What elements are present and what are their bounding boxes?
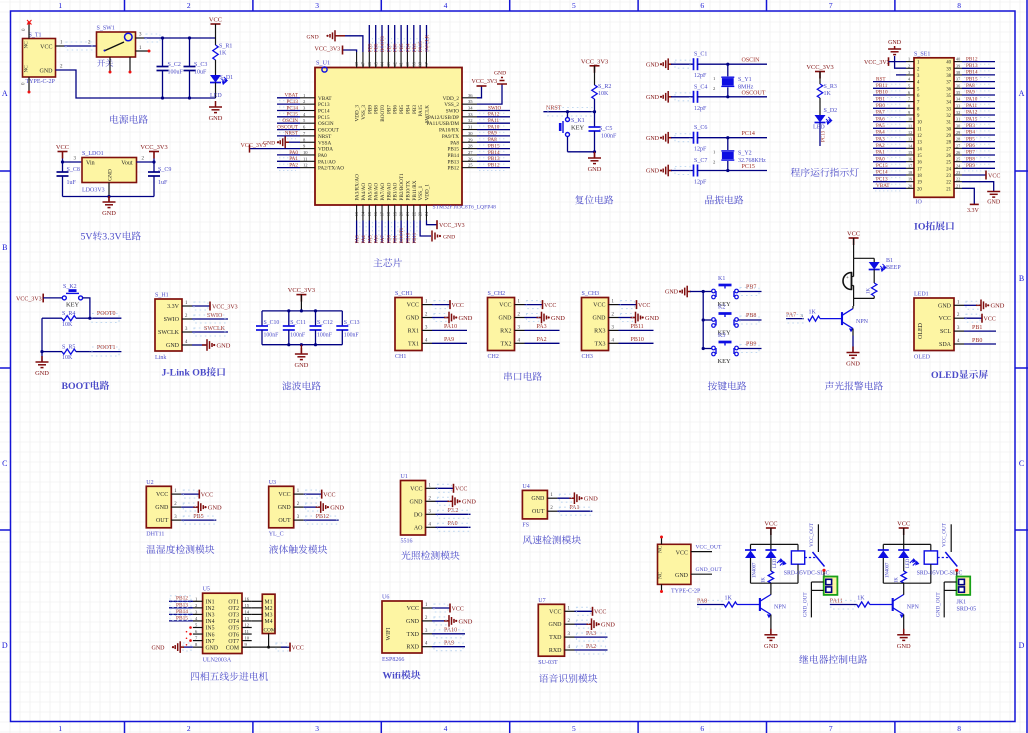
wire alarm emitter to gnd (852, 336, 854, 353)
svg-text:PB12: PB12 (966, 56, 978, 62)
svg-text:NC: NC (658, 571, 664, 579)
svg-text:IN2: IN2 (206, 606, 215, 612)
svg-text:OT7: OT7 (228, 639, 239, 645)
push button K3 KEY (703, 348, 711, 350)
VCC flag (stepper) (281, 646, 290, 648)
LED D1 (210, 75, 221, 83)
svg-text:2: 2 (185, 314, 188, 319)
alarm bottom tee (854, 297, 875, 299)
svg-text:K3: K3 (718, 333, 725, 339)
svg-text:GND: GND (108, 169, 114, 181)
svg-text:PB9: PB9 (367, 105, 373, 114)
svg-text:VDDA: VDDA (318, 147, 333, 153)
svg-text:4: 4 (957, 339, 960, 344)
connector JK output (green) (824, 577, 838, 595)
svg-text:PB10: PB10 (406, 232, 411, 243)
svg-text:10: 10 (303, 150, 308, 155)
svg-text:U5: U5 (203, 587, 210, 593)
ground GND (LDO) (103, 196, 116, 208)
svg-text:OSCIN: OSCIN (318, 121, 334, 127)
svg-text:2: 2 (142, 157, 145, 162)
svg-text:20: 20 (917, 187, 922, 192)
push button K2 KEY (BOOT) (62, 291, 82, 300)
svg-text:PA0: PA0 (318, 153, 327, 159)
ground GND (C6 row1) (660, 137, 662, 139)
svg-text:PB15: PB15 (488, 143, 500, 149)
ground GND (C4 row2) (660, 96, 662, 98)
svg-text:16: 16 (917, 161, 922, 166)
wire VCC_3V3 to key K2 (43, 297, 62, 299)
svg-text:GND: GND (459, 618, 473, 625)
svg-text:GND: GND (549, 622, 563, 628)
svg-text:BOOT0: BOOT0 (380, 105, 386, 122)
U1 top pin net wires 46-37 (368, 25, 370, 52)
svg-text:PA3: PA3 (876, 136, 885, 142)
svg-text:12: 12 (245, 623, 250, 628)
svg-text:12: 12 (908, 130, 912, 135)
svg-text:S_C3: S_C3 (194, 62, 207, 68)
svg-text:PA2/TX/AO: PA2/TX/AO (318, 166, 344, 172)
svg-text:KEY: KEY (718, 358, 732, 365)
svg-text:7: 7 (195, 636, 198, 641)
svg-text:PB5: PB5 (193, 514, 203, 520)
svg-text:11: 11 (303, 156, 308, 161)
capacitor C7 12pF (671, 170, 694, 172)
svg-text:GND: GND (410, 499, 424, 505)
svg-text:38: 38 (946, 74, 951, 79)
svg-text:2: 2 (174, 502, 177, 507)
SE1 pin3 short stub (896, 74, 906, 76)
svg-text:VCC_OUT: VCC_OUT (809, 522, 815, 547)
wire CH3 pin4 PB10 (619, 342, 654, 344)
svg-text:IO: IO (914, 222, 926, 233)
svg-text:32: 32 (468, 118, 473, 123)
svg-text:VSS_3: VSS_3 (361, 105, 367, 120)
svg-text:12: 12 (303, 163, 308, 168)
svg-text:S_C12: S_C12 (317, 320, 333, 326)
svg-text:J-Link OB: J-Link OB (162, 368, 207, 379)
svg-text:Vout: Vout (121, 161, 133, 167)
svg-text:VCC: VCC (455, 487, 467, 493)
svg-text:ULN2003A: ULN2003A (203, 658, 232, 664)
svg-text:VCC: VCC (156, 492, 168, 498)
connector M1 stepper motor body (262, 594, 275, 633)
wire OLED pin3 SCL to PB1 (964, 330, 996, 332)
module U2 DHT11 body (146, 486, 171, 528)
title: 5V to 3.3V 5V转3.3V电路 (81, 231, 141, 242)
LDO ground wire (108, 183, 110, 197)
svg-text:VCC_3V3: VCC_3V3 (581, 58, 608, 65)
ground GND (BOOT) (36, 356, 49, 368)
T2 GND pin to GND_OUT (691, 573, 712, 575)
wire CH1 pin2 to GND (432, 317, 448, 319)
svg-text:PA5/AO: PA5/AO (367, 183, 373, 201)
wire K2 to BOOT0 node (83, 298, 90, 318)
svg-text:5516: 5516 (401, 539, 413, 545)
svg-text:15: 15 (917, 154, 922, 159)
svg-text:12pF: 12pF (694, 73, 707, 79)
svg-text:10K: 10K (598, 91, 609, 97)
capacitor C9 1uF (153, 159, 155, 173)
svg-text:OLED: OLED (931, 370, 959, 381)
title: J-Link OB接口 (162, 367, 226, 378)
svg-text:PB8: PB8 (374, 105, 380, 114)
svg-text:PA10: PA10 (444, 324, 457, 330)
wire CH2 pin2 to GND (525, 317, 541, 319)
wire K3 to PB9 (739, 348, 762, 350)
U1 right net labels (477, 110, 510, 112)
svg-text:SWIO: SWIO (446, 109, 460, 115)
svg-text:VCC: VCC (593, 303, 605, 309)
svg-text:100uF: 100uF (168, 70, 184, 76)
U5 pin 4 IN4 (193, 620, 203, 622)
module U1 5516 body (401, 481, 426, 536)
wire BOOT pulldown bus (41, 318, 43, 362)
svg-text:GND: GND (217, 342, 231, 349)
module U4 pin OUT to PA1 (557, 510, 592, 512)
svg-text:PB10/TX: PB10/TX (405, 180, 411, 200)
module U1 pin VCC to VCC (436, 487, 454, 489)
wire K1 to PB7 (739, 291, 762, 293)
svg-text:19: 19 (917, 181, 922, 186)
svg-text:32: 32 (956, 110, 960, 115)
svg-text:S_C5: S_C5 (599, 126, 612, 132)
U5 pin 16 OT1 (242, 600, 252, 602)
svg-text:GND: GND (462, 499, 476, 506)
svg-text:GND_OUT: GND_OUT (935, 592, 941, 617)
SE1 right net wires and labels (962, 61, 995, 63)
svg-text:GND: GND (584, 496, 598, 503)
svg-text:2: 2 (612, 313, 615, 318)
svg-text:100nF: 100nF (344, 333, 360, 339)
svg-text:VBAT: VBAT (284, 93, 298, 99)
svg-text:GND: GND (764, 643, 778, 650)
svg-text:PB11: PB11 (413, 232, 418, 243)
module U1 pin GND to GND (436, 500, 452, 502)
svg-text:CH2: CH2 (488, 354, 499, 360)
svg-text:GND: GND (35, 370, 49, 377)
svg-text:GND: GND (646, 62, 660, 68)
svg-text:VCC: VCC (407, 303, 419, 309)
LED D3 (alarm) (869, 262, 880, 270)
svg-text:IO: IO (916, 200, 923, 206)
header CH2 serial port body (488, 298, 515, 351)
svg-text:VCC: VCC (292, 645, 304, 651)
svg-text:PB5: PB5 (966, 136, 975, 142)
T1 top pin 0 stub with x mark (28, 24, 30, 39)
svg-text:VCC_3V3: VCC_3V3 (806, 64, 833, 71)
svg-text:GND: GND (499, 316, 513, 322)
svg-text:STM32F103C8T6_LQFP48: STM32F103C8T6_LQFP48 (433, 205, 497, 211)
svg-text:10: 10 (917, 121, 922, 126)
resistor R1 1K (215, 38, 217, 45)
svg-text:7: 7 (303, 131, 306, 136)
module U3 pin OUT to PB12 (304, 519, 339, 521)
svg-text:PB7: PB7 (386, 105, 392, 114)
svg-text:11: 11 (917, 127, 922, 132)
svg-text:S_C13: S_C13 (344, 320, 360, 326)
svg-text:6: 6 (303, 125, 306, 130)
svg-text:VCC: VCC (278, 492, 290, 498)
svg-text:34: 34 (468, 106, 473, 111)
svg-text:5V: 5V (81, 232, 93, 243)
svg-text:COM: COM (226, 645, 239, 651)
svg-text:PA9: PA9 (966, 90, 975, 96)
svg-text:VCC: VCC (549, 609, 561, 615)
U5 pin 9 COM (242, 646, 252, 648)
svg-text:2: 2 (195, 603, 198, 608)
U5 pin 15 OT2 (242, 607, 252, 609)
module U3 pin VCC to VCC (304, 493, 322, 495)
svg-text:PB5: PB5 (399, 105, 405, 114)
svg-text:VCC_3V3: VCC_3V3 (212, 304, 238, 310)
M1 pin M3 wire (252, 613, 263, 615)
svg-text:4: 4 (444, 1, 448, 10)
svg-text:NPN: NPN (774, 605, 787, 611)
svg-text:2: 2 (303, 99, 306, 104)
svg-text:19: 19 (908, 177, 912, 182)
svg-text:PA12: PA12 (488, 112, 500, 118)
svg-text:GND: GND (846, 361, 860, 368)
svg-text:IN5: IN5 (206, 626, 215, 632)
svg-text:S_Y2: S_Y2 (738, 151, 752, 157)
svg-text:PB8: PB8 (966, 156, 975, 162)
svg-text:PA1/AO: PA1/AO (318, 159, 336, 165)
svg-text:GND: GND (278, 505, 292, 511)
svg-text:VCC: VCC (452, 606, 464, 612)
svg-text:GND: GND (551, 315, 565, 322)
title: OLED显示屏 (931, 370, 988, 381)
svg-text:35: 35 (468, 99, 473, 104)
svg-text:PA8: PA8 (488, 137, 497, 143)
svg-text:PA11: PA11 (966, 103, 978, 109)
svg-text:40: 40 (946, 61, 951, 66)
svg-text:PA0: PA0 (289, 150, 298, 156)
svg-text:GND_OUT: GND_OUT (696, 567, 723, 573)
svg-text:0: 0 (22, 28, 27, 31)
svg-text:TXD: TXD (549, 635, 562, 641)
svg-text:VDD_3: VDD_3 (355, 105, 361, 122)
svg-text:31: 31 (956, 117, 960, 122)
svg-text:PC13: PC13 (876, 176, 888, 182)
ground GND (filter) (295, 348, 308, 360)
svg-text:RX3: RX3 (594, 328, 605, 334)
svg-text:10: 10 (908, 117, 912, 122)
svg-text:29: 29 (946, 134, 951, 139)
wire GND bus of power circuit (56, 70, 216, 98)
svg-text:34: 34 (956, 97, 961, 102)
U1 bottom pins 13-24 stubs (357, 205, 427, 221)
wire H1 pin4 to GND (192, 344, 206, 346)
svg-text:GND: GND (166, 343, 180, 349)
SW1 pin3 to VCC rail (136, 37, 145, 39)
svg-text:PA10: PA10 (488, 124, 500, 130)
svg-text:PB11/RX: PB11/RX (412, 180, 418, 200)
capacitor C3 10uF (189, 38, 191, 67)
svg-text:41: 41 (399, 62, 404, 66)
svg-text:GND: GND (406, 316, 420, 322)
U6 pin VCC to VCC (432, 607, 450, 609)
svg-text:SRD-05VDC-SL-C: SRD-05VDC-SL-C (917, 571, 963, 577)
svg-text:IN1: IN1 (206, 600, 215, 606)
U7 pin TXD to PA3 (575, 636, 608, 638)
title: crystal 晶振电路 (705, 195, 743, 204)
svg-text:B: B (1019, 274, 1024, 283)
svg-text:U6: U6 (382, 595, 389, 601)
svg-text:1uF: 1uF (158, 180, 168, 186)
svg-text:9: 9 (245, 642, 248, 647)
svg-text:PA0: PA0 (876, 156, 885, 162)
ground GND (alarm) (847, 347, 860, 359)
svg-text:PC13: PC13 (318, 102, 330, 108)
driver U5 ULN2003A body (203, 593, 242, 653)
U1 left net labels (277, 97, 300, 99)
module U1 pin AO to PA0 (436, 526, 471, 528)
svg-text:PB3: PB3 (412, 105, 418, 114)
net label PA8 and base resistor 1K (697, 604, 724, 606)
svg-text:2: 2 (908, 63, 910, 68)
transistor NPN (relay driver) (893, 595, 904, 615)
svg-text:S_K2: S_K2 (63, 284, 77, 290)
ground GND (relay driver) (764, 629, 777, 641)
svg-text:4: 4 (425, 338, 428, 343)
svg-text:S_LDO1: S_LDO1 (82, 151, 104, 157)
svg-text:GND: GND (665, 290, 679, 296)
svg-text:GND: GND (588, 166, 602, 173)
title: Wifi模块 (383, 670, 421, 681)
svg-text:24: 24 (946, 167, 951, 172)
svg-text:PB11: PB11 (631, 324, 644, 330)
svg-text:1K: 1K (866, 288, 872, 295)
wire K2 to PB8 (739, 319, 762, 321)
header SE1 IO expansion 40-pin body (914, 58, 954, 198)
svg-text:OSCIN: OSCIN (742, 58, 761, 64)
svg-text:28: 28 (468, 144, 473, 149)
svg-text:27: 27 (468, 150, 473, 155)
svg-text:9: 9 (908, 110, 910, 115)
M1 pin M4 wire (252, 620, 263, 622)
U5 pin 8 GND (193, 646, 203, 648)
svg-text:S_CH3: S_CH3 (582, 291, 600, 297)
M1 pin M1 wire (252, 600, 263, 602)
SW1 pin1 open stub (136, 50, 149, 52)
svg-text:VCC_3V3: VCC_3V3 (439, 223, 465, 229)
svg-text:1: 1 (297, 489, 300, 494)
svg-text:VCC_OUT: VCC_OUT (696, 545, 722, 551)
module U4 pin GND to GND (557, 497, 573, 499)
U7 pin RXD to PA2 (575, 649, 608, 651)
svg-text:1K: 1K (762, 577, 767, 583)
svg-text:GND: GND (646, 169, 660, 175)
transistor NPN (relay driver) (760, 595, 771, 615)
wire CH1 pin4 PA9 (432, 342, 467, 344)
svg-text:17: 17 (917, 167, 922, 172)
svg-text:3.3V: 3.3V (967, 208, 980, 214)
module U2 pin VCC to VCC (181, 493, 199, 495)
svg-text:S_D2: S_D2 (824, 108, 838, 114)
svg-text:30: 30 (956, 123, 960, 128)
svg-text:42: 42 (392, 62, 397, 66)
svg-text:IN4: IN4 (206, 619, 215, 625)
svg-text:GND: GND (209, 115, 223, 122)
svg-text:39: 39 (946, 67, 951, 72)
svg-text:PB13: PB13 (447, 159, 459, 165)
svg-text:VSS_2: VSS_2 (444, 102, 459, 108)
svg-text:PB1/AO: PB1/AO (393, 182, 399, 200)
title: indicator 程序运行指示灯 (791, 168, 859, 177)
svg-text:3: 3 (185, 327, 188, 332)
svg-text:22: 22 (411, 212, 416, 216)
wire VSS_2 to GND flag (477, 84, 502, 104)
ground GND (C7 row2) (660, 169, 662, 171)
svg-text:PB12: PB12 (488, 162, 500, 168)
svg-text:35: 35 (956, 90, 960, 95)
svg-text:33: 33 (468, 112, 473, 117)
svg-text:PA9: PA9 (444, 337, 454, 343)
svg-text:S_R1: S_R1 (219, 44, 232, 50)
svg-text:LDO3V3: LDO3V3 (82, 188, 105, 194)
wire VCC rail top (144, 37, 216, 39)
svg-text:GND: GND (646, 95, 660, 101)
title: reset 复位电路 (575, 195, 613, 204)
U6 pin GND to GND (432, 620, 448, 622)
svg-text:S_T1: S_T1 (29, 33, 42, 39)
svg-text:PA1: PA1 (289, 156, 298, 162)
svg-text:PC15: PC15 (318, 115, 330, 121)
filter gnd stem (300, 345, 302, 354)
U5 pin 7 IN7 (193, 640, 203, 642)
svg-text:U3: U3 (269, 480, 276, 486)
svg-text:PA2: PA2 (586, 644, 596, 650)
svg-text:PB14: PB14 (447, 153, 459, 159)
svg-text:NPN: NPN (856, 319, 869, 325)
svg-text:SDA: SDA (939, 342, 952, 348)
svg-text:PC14: PC14 (742, 131, 755, 137)
ground GND (relay driver) (897, 629, 910, 641)
svg-text:TX3: TX3 (595, 341, 606, 347)
svg-text:6: 6 (195, 629, 198, 634)
junction dots on VCC rail (161, 36, 164, 39)
svg-text:S_C6: S_C6 (694, 125, 707, 131)
svg-text:PA7: PA7 (876, 110, 885, 116)
svg-text:PC14: PC14 (318, 109, 330, 115)
svg-text:18: 18 (917, 174, 922, 179)
svg-text:28: 28 (956, 137, 960, 142)
svg-text:JK1: JK1 (957, 600, 967, 606)
svg-text:PC14: PC14 (286, 105, 298, 111)
svg-text:LED1: LED1 (914, 292, 929, 298)
svg-text:GND: GND (645, 315, 659, 322)
svg-text:TYPE-C-2P: TYPE-C-2P (26, 79, 56, 85)
svg-text:PB11: PB11 (876, 83, 888, 89)
svg-text:3: 3 (303, 106, 306, 111)
svg-text:PA1: PA1 (876, 150, 885, 156)
svg-text:VCC: VCC (452, 303, 464, 309)
svg-text:VCC_3V3: VCC_3V3 (472, 79, 498, 85)
svg-text:GND: GND (307, 34, 319, 40)
svg-text:PA4: PA4 (876, 130, 885, 136)
wires JK to GND_OUT (944, 581, 956, 583)
svg-text:PA3: PA3 (537, 324, 547, 330)
svg-text:PB15: PB15 (447, 147, 459, 153)
wires JK to GND_OUT (811, 581, 823, 583)
U1 top-left GND flag to VSS_3 (345, 36, 363, 52)
svg-text:4: 4 (185, 340, 188, 345)
svg-text:S_K1: S_K1 (571, 118, 585, 124)
svg-text:CH1: CH1 (395, 354, 406, 360)
svg-text:10uF: 10uF (194, 70, 207, 76)
ground GND (buttons) (679, 290, 681, 292)
